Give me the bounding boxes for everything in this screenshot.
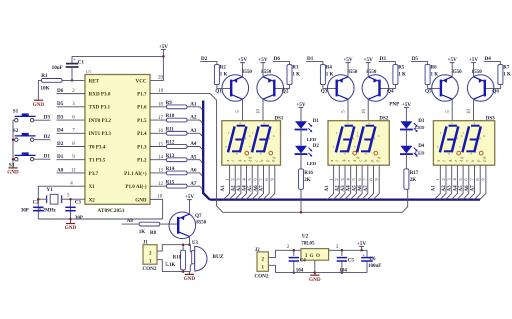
svg-text:X2: X2	[89, 197, 96, 203]
svg-text:GND: GND	[309, 277, 321, 283]
svg-text:A3: A3	[341, 185, 346, 192]
DS2 digit 2 segment letters	[354, 121, 380, 155]
svg-text:d: d	[260, 151, 262, 155]
U1 right pin names	[124, 78, 147, 203]
junction C3/ground	[69, 218, 72, 221]
power +5V (Q5)	[448, 57, 458, 77]
svg-text:d: d	[236, 151, 238, 155]
svg-text:INT0 P3.2: INT0 P3.2	[89, 118, 112, 124]
wire D4 to R7	[484, 62, 501, 65]
svg-text:g: g	[448, 160, 452, 162]
svg-text:A2: A2	[190, 115, 197, 121]
svg-text:INT1 P3.3: INT1 P3.3	[89, 131, 112, 137]
svg-text:d: d	[448, 151, 450, 155]
svg-text:11: 11	[71, 168, 76, 173]
DS3 bottom pin letters	[437, 160, 487, 162]
wire S3 output	[34, 158, 51, 160]
svg-text:10: 10	[467, 109, 472, 115]
svg-text:A7: A7	[260, 185, 265, 192]
svg-text:Q5: Q5	[425, 89, 432, 95]
svg-text:A6: A6	[254, 185, 259, 192]
power +5V (U1 VCC)	[159, 44, 169, 57]
wire D3 to R5	[379, 62, 396, 65]
svg-text:R15: R15	[166, 180, 175, 185]
svg-text:1 K: 1 K	[431, 72, 439, 77]
switch S1	[13, 113, 36, 122]
IC U1 AT89C2051 body	[85, 75, 150, 205]
svg-text:g: g	[245, 136, 247, 140]
svg-text:P1.0 AI(-): P1.0 AI(-)	[125, 183, 147, 190]
DS1 digit 1 segments	[228, 126, 246, 153]
power +5V (Q2)	[258, 57, 268, 77]
svg-text:Q6: Q6	[492, 89, 499, 95]
svg-text:A7: A7	[364, 185, 369, 192]
svg-text:A2: A2	[231, 185, 236, 192]
wire Q6 collector	[473, 99, 475, 121]
svg-text:20: 20	[158, 76, 164, 81]
svg-text:RET: RET	[89, 78, 100, 84]
svg-text:+5V: +5V	[343, 57, 353, 63]
wire R13 to bus	[187, 160, 203, 164]
wire R6 to Q5 base	[428, 85, 441, 89]
DS1 digit 1 segment letters	[225, 121, 251, 155]
power +5V (regulator output)	[357, 241, 367, 251]
svg-text:DS2: DS2	[379, 116, 388, 121]
svg-text:D3: D3	[380, 56, 387, 62]
svg-text:10K: 10K	[40, 86, 49, 92]
svg-text:g: g	[269, 136, 271, 140]
svg-text:DS3: DS3	[486, 116, 495, 121]
wire DS3 pin 7 riser	[468, 165, 474, 199]
wire R15 to bus	[187, 186, 203, 190]
svg-text:R14: R14	[166, 167, 175, 172]
svg-text:8550: 8550	[347, 70, 358, 75]
power +5V (LED D3)	[402, 102, 412, 121]
resistor R1	[42, 79, 63, 83]
wire DS2 pin 7 riser	[362, 165, 368, 199]
svg-text:b: b	[364, 160, 368, 162]
svg-text:b: b	[483, 134, 485, 138]
svg-text:BUZ: BUZ	[212, 254, 223, 260]
junction R18 top	[182, 243, 185, 246]
wire DS1 pin 2 riser	[229, 165, 235, 199]
wire crystal left	[38, 198, 46, 200]
svg-text:R5: R5	[398, 66, 405, 71]
svg-text:J2: J2	[255, 248, 260, 253]
DS2 digit 2 dp	[374, 151, 381, 159]
resistor R10	[167, 118, 188, 122]
svg-text:A4: A4	[453, 185, 458, 192]
wire DS3 pin 1 riser	[434, 165, 440, 199]
svg-text:8550: 8550	[242, 70, 253, 75]
svg-text:U3: U3	[192, 241, 198, 246]
wire DS1 pin 5 riser	[246, 165, 252, 199]
wire DS1 pin 6 riser	[252, 165, 258, 199]
svg-text:CON2: CON2	[254, 274, 269, 280]
svg-text:R11: R11	[166, 127, 175, 132]
wire U1 pin 11 (A8)	[57, 172, 86, 174]
resistor R11	[167, 131, 188, 135]
svg-text:+: +	[362, 252, 365, 257]
svg-text:C3: C3	[75, 200, 82, 205]
svg-text:Q7: Q7	[195, 213, 202, 219]
ground (switches)	[7, 167, 19, 176]
svg-text:g: g	[237, 160, 241, 162]
svg-text:g: g	[479, 136, 481, 140]
power +5V (Q7)	[185, 194, 195, 214]
wire R2 to Q1 base	[217, 85, 231, 89]
wire DS2 pin 3 riser	[339, 165, 345, 199]
svg-text:D2: D2	[44, 134, 51, 140]
svg-text:A6: A6	[190, 168, 197, 174]
svg-text:D5: D5	[57, 101, 64, 107]
svg-text:1 K: 1 K	[398, 72, 406, 77]
capacitor C5	[337, 250, 347, 272]
wire DS1 pin 8 riser	[263, 165, 269, 199]
svg-text:b: b	[471, 160, 475, 162]
svg-text:DS1: DS1	[275, 116, 284, 121]
svg-text:VCC: VCC	[136, 78, 147, 84]
svg-text:R6: R6	[431, 66, 438, 71]
bus A1-A7 vertical	[203, 101, 210, 200]
capacitor C4	[289, 250, 299, 272]
junction R18 bottom	[182, 270, 185, 273]
svg-text:P1.7: P1.7	[137, 92, 147, 98]
svg-text:D3: D3	[57, 114, 64, 120]
ground (R1)	[33, 99, 45, 108]
display DS1 body	[222, 121, 281, 166]
wire D6 to R3	[273, 62, 290, 65]
svg-text:Q1: Q1	[215, 89, 222, 95]
DS3 digit 2 dp	[479, 151, 486, 159]
svg-text:A8: A8	[57, 167, 64, 173]
resistor R6	[425, 65, 430, 85]
svg-text:D1: D1	[313, 119, 320, 124]
svg-text:A1: A1	[325, 185, 330, 192]
svg-text:d: d	[249, 160, 253, 162]
svg-text:C4: C4	[300, 258, 307, 263]
display DS2 body	[328, 121, 389, 166]
wire U2 ground pin	[314, 260, 316, 272]
power +5V (Q6)	[469, 57, 479, 77]
wire DS2 pin 2 riser	[333, 165, 339, 199]
svg-text:+5V: +5V	[185, 194, 195, 200]
svg-text:d: d	[460, 160, 464, 162]
wire Q3 collector	[347, 99, 349, 121]
svg-text:+5V: +5V	[357, 241, 367, 247]
svg-text:R8: R8	[150, 231, 157, 236]
wire DS3 pin 4 riser	[451, 165, 457, 199]
svg-text:P1.3: P1.3	[137, 144, 147, 150]
svg-text:GND: GND	[7, 170, 19, 176]
DS2 bottom pin letters	[330, 160, 380, 162]
wire P1.7 pin 19 net	[150, 94, 408, 213]
svg-text:GND: GND	[184, 276, 196, 282]
ground (crystal)	[65, 219, 77, 231]
U1 left pin names	[89, 78, 112, 203]
wire D5 to R6	[411, 62, 428, 65]
svg-text:10uF: 10uF	[52, 65, 63, 71]
svg-text:2K: 2K	[304, 178, 311, 183]
svg-text:dp: dp	[377, 156, 381, 160]
wire DS3 pin 6 riser	[463, 165, 469, 199]
svg-text:C2: C2	[33, 201, 40, 206]
junction C5 top	[341, 249, 344, 252]
svg-text:R12: R12	[166, 141, 175, 146]
svg-text:AT89C2051: AT89C2051	[97, 208, 124, 214]
svg-text:13: 13	[158, 169, 164, 174]
svg-text:LED: LED	[307, 161, 317, 166]
wire R12 to bus	[187, 147, 203, 151]
wire D1 to D2	[300, 130, 302, 146]
svg-text:Q4: Q4	[387, 89, 394, 95]
power +5V (Q3)	[343, 57, 353, 77]
svg-text:D1: D1	[57, 154, 64, 160]
wire DS1 pin 3 riser	[235, 165, 241, 199]
switch S3	[13, 152, 36, 161]
wire switch ground rail	[12, 120, 14, 166]
svg-text:LED: LED	[415, 150, 425, 155]
wire U1 pin 16	[150, 132, 167, 134]
svg-text:8550: 8550	[452, 70, 463, 75]
svg-text:g: g	[341, 160, 345, 162]
svg-text:8550: 8550	[196, 221, 207, 226]
wire U1 pin 3 (D5)	[57, 106, 86, 108]
DS3 digit 1 segments	[440, 126, 458, 153]
wire A8 to R8	[122, 223, 140, 225]
svg-text:GND: GND	[135, 197, 147, 203]
transistor Q5 8550	[432, 75, 459, 102]
wire R10 to bus	[187, 120, 203, 124]
svg-text:LED: LED	[415, 125, 425, 130]
wire U1 pin 8 (D2)	[57, 146, 86, 148]
wire U1 pin 14	[150, 159, 167, 161]
wire U1 pin 7 (D4)	[57, 132, 86, 134]
junction S2	[12, 138, 15, 141]
svg-text:J1: J1	[143, 241, 148, 246]
svg-text:78L05: 78L05	[301, 241, 315, 246]
svg-text:P1.4: P1.4	[137, 131, 147, 137]
svg-text:A4: A4	[243, 185, 248, 192]
svg-text:I G O: I G O	[305, 254, 320, 259]
capacitor C3	[65, 207, 75, 210]
wire DS2 pin 8 riser	[367, 165, 373, 199]
svg-text:+5V: +5V	[159, 44, 169, 50]
svg-text:14: 14	[158, 156, 164, 161]
svg-text:R13: R13	[166, 154, 175, 159]
DS1 bottom pin letters	[226, 160, 275, 162]
svg-text:b: b	[249, 134, 251, 138]
power +5V (LED D1)	[296, 102, 306, 121]
svg-text:A3: A3	[237, 185, 242, 192]
wire DS2 pin 4 riser	[345, 165, 351, 199]
svg-text:+5V: +5V	[469, 57, 479, 63]
svg-text:P1.1 AI(+): P1.1 AI(+)	[124, 170, 147, 177]
wire DS1 pin 9 riser	[269, 165, 275, 199]
DS1 digit 2 dp	[269, 151, 276, 159]
svg-text:D3: D3	[44, 114, 51, 120]
wire DS1 pin 7 riser	[257, 165, 263, 199]
LED D2	[295, 146, 313, 157]
svg-text:A6: A6	[358, 185, 363, 192]
svg-text:5.1K: 5.1K	[165, 263, 175, 268]
svg-text:16: 16	[158, 129, 164, 134]
svg-text:A5: A5	[459, 185, 464, 192]
svg-text:A5: A5	[352, 185, 357, 192]
wire Q4 collector	[367, 99, 369, 121]
svg-text:A1: A1	[190, 101, 197, 107]
svg-text:A7: A7	[471, 185, 476, 192]
svg-text:P1.2: P1.2	[137, 158, 147, 164]
svg-text:D2: D2	[57, 141, 64, 147]
wire crystal right	[62, 198, 71, 200]
svg-text:30P: 30P	[21, 209, 29, 214]
svg-text:D6: D6	[274, 56, 281, 62]
svg-text:1 K: 1 K	[326, 72, 334, 77]
wire DS3 pin 3 riser	[446, 165, 452, 199]
svg-text:Y1: Y1	[46, 187, 53, 193]
svg-text:D3: D3	[418, 119, 425, 124]
wire D2 to R2	[200, 62, 217, 65]
svg-text:15: 15	[158, 142, 164, 147]
transistor Q6 8550	[467, 75, 494, 102]
svg-text:18: 18	[158, 103, 164, 108]
wire crystal ground rail	[38, 218, 162, 220]
resistor R18	[181, 250, 186, 270]
svg-text:+5V: +5V	[238, 57, 248, 63]
svg-text:P1.5: P1.5	[137, 118, 147, 124]
svg-text:D1: D1	[307, 56, 314, 62]
svg-text:TXD P3.1: TXD P3.1	[89, 105, 111, 111]
svg-text:R1: R1	[41, 73, 48, 79]
transistor Q7 8550	[169, 212, 196, 239]
wire U1 pin 12	[150, 185, 167, 187]
wire J2 pin1 to ground rail	[268, 265, 275, 272]
svg-text:A1: A1	[432, 185, 437, 192]
svg-text:dp: dp	[356, 156, 360, 160]
junction +5V riser	[360, 249, 363, 252]
wire D1 to R4	[306, 62, 323, 65]
LED D4	[400, 146, 418, 157]
svg-text:R9: R9	[166, 101, 173, 106]
wire DS3 pin 9 riser	[480, 165, 486, 199]
junction Q7 collector	[188, 243, 191, 246]
svg-text:dp: dp	[460, 156, 464, 160]
wire D3 to D4	[405, 130, 407, 146]
resistor R5	[393, 65, 398, 85]
wire U1 pin 9 (D1)	[57, 159, 86, 161]
power +5V (Q4)	[364, 57, 374, 77]
svg-text:+5V: +5V	[448, 57, 458, 63]
wire DS2 pin 6 riser	[356, 165, 362, 199]
wire D4 to R17	[405, 154, 407, 169]
svg-text:g: g	[353, 136, 355, 140]
display DS3 body	[433, 121, 494, 166]
wire Q7 collector	[189, 236, 191, 244]
DS2 digit 1 segment letters	[333, 121, 359, 155]
wire U1 X1 pin 4	[38, 186, 85, 219]
svg-text:1 K: 1 K	[292, 72, 300, 77]
DS1 digit 2 segment letters	[249, 121, 275, 155]
junction X2/C3	[69, 198, 72, 201]
wire R14 to bus	[187, 173, 203, 177]
wire C3 riser	[70, 199, 72, 219]
junction S3	[12, 158, 15, 161]
resistor R9	[167, 105, 188, 109]
svg-text:100uF: 100uF	[368, 264, 381, 269]
wire R1 to ground	[38, 80, 41, 99]
junction C5 bottom	[341, 271, 344, 274]
resistor R16	[299, 169, 304, 189]
resistor R14	[167, 171, 188, 175]
svg-text:p: p	[477, 160, 481, 162]
wire J1 pin1 to ground rail	[157, 260, 190, 272]
LED D3	[400, 121, 418, 132]
wire U1 pin 15	[150, 146, 167, 148]
svg-text:R3: R3	[292, 66, 299, 71]
resistor R7	[498, 65, 503, 85]
wire R8 to Q7 base	[160, 223, 179, 225]
wire U1 pin 2 (D6)	[57, 93, 86, 95]
svg-text:T1 P3.5: T1 P3.5	[89, 158, 106, 164]
wire R4 to Q3 base	[323, 85, 337, 89]
DS3 digit 1 segment letters	[437, 121, 463, 155]
svg-text:P1.6: P1.6	[137, 105, 147, 111]
svg-text:1 K: 1 K	[503, 72, 511, 77]
wire S2 output	[34, 139, 51, 141]
svg-text:1 K: 1 K	[220, 72, 228, 77]
wire DS1 pin 1 riser	[224, 165, 230, 199]
svg-text:D4: D4	[485, 56, 492, 62]
resistor R13	[167, 158, 188, 162]
wire R5 to Q4 base	[380, 85, 396, 89]
svg-text:p: p	[370, 160, 374, 162]
svg-text:Q3: Q3	[321, 89, 328, 95]
svg-text:1K: 1K	[139, 230, 146, 235]
svg-text:+5V: +5V	[402, 102, 412, 108]
DS2 digit 2 segments	[357, 126, 375, 153]
svg-text:g: g	[457, 136, 459, 140]
svg-text:A5: A5	[248, 185, 253, 192]
svg-text:R18: R18	[173, 256, 182, 261]
svg-text:RXD P3.0: RXD P3.0	[89, 92, 111, 98]
svg-text:A6: A6	[465, 185, 470, 192]
wire R16 to LED return	[300, 189, 302, 212]
svg-text:CON2: CON2	[142, 266, 157, 272]
svg-text:b: b	[273, 134, 275, 138]
wire U1 X2 pin 5	[71, 198, 86, 200]
svg-text:b: b	[260, 160, 264, 162]
svg-text:10: 10	[157, 194, 163, 199]
wire RET node	[62, 79, 85, 81]
resistor R4	[320, 65, 325, 85]
svg-text:2K: 2K	[410, 178, 417, 183]
connector J1 body	[143, 245, 157, 265]
svg-text:p: p	[266, 160, 270, 162]
svg-text:D5: D5	[412, 56, 419, 62]
LED D1	[295, 121, 313, 132]
svg-text:dp: dp	[272, 156, 276, 160]
svg-text:C1: C1	[78, 59, 85, 65]
resistor R15	[167, 184, 188, 188]
bus A1-A7 horizontal	[210, 198, 480, 200]
svg-text:10: 10	[257, 109, 262, 115]
wire D2 to R16	[300, 154, 302, 169]
junction U2 ground	[314, 271, 317, 274]
power +5V (Q1)	[238, 57, 248, 77]
transistor Q1 8550	[222, 75, 249, 102]
svg-text:10: 10	[362, 109, 367, 115]
